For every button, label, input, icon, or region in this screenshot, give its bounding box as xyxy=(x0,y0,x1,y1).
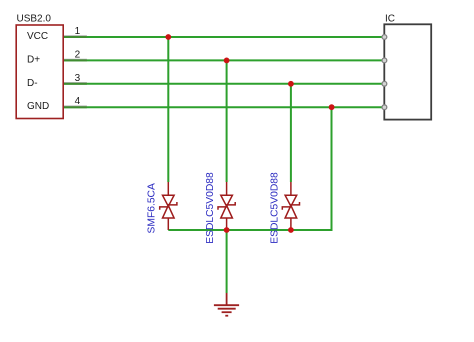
svg-text:2: 2 xyxy=(75,49,81,60)
svg-text:GND: GND xyxy=(27,101,49,112)
svg-text:D+: D+ xyxy=(27,55,40,66)
svg-text:USB2.0: USB2.0 xyxy=(17,14,52,25)
svg-text:1: 1 xyxy=(75,26,81,37)
svg-text:IC: IC xyxy=(385,14,395,25)
svg-text:3: 3 xyxy=(75,73,81,84)
svg-text:4: 4 xyxy=(75,96,81,107)
svg-text:ESDLC5V0D88: ESDLC5V0D88 xyxy=(270,172,281,244)
svg-text:SMF6.5CA: SMF6.5CA xyxy=(147,183,158,233)
svg-text:VCC: VCC xyxy=(27,31,48,42)
svg-text:D-: D- xyxy=(27,78,38,89)
svg-text:ESDLC5V0D88: ESDLC5V0D88 xyxy=(205,172,216,244)
